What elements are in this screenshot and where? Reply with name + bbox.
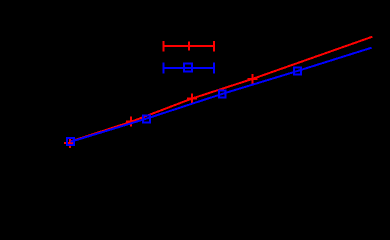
red point 1 errorbar/plus [64, 138, 74, 148]
legend blue sample [163, 63, 214, 74]
legend red sample [163, 41, 214, 52]
blue point 1 square [67, 138, 74, 145]
red point 3 errorbar/plus [187, 93, 197, 103]
blue point 2 square [143, 116, 150, 123]
red point 4 errorbar/plus [248, 74, 258, 84]
red point 2 errorbar/plus [126, 117, 136, 127]
red point 1 lower error whisker tip (drawn over square) [69, 146, 71, 148]
blue series line [71, 48, 372, 142]
blue point 4 square [294, 68, 301, 75]
blue point 3 square [219, 91, 226, 98]
red series line [70, 37, 373, 142]
